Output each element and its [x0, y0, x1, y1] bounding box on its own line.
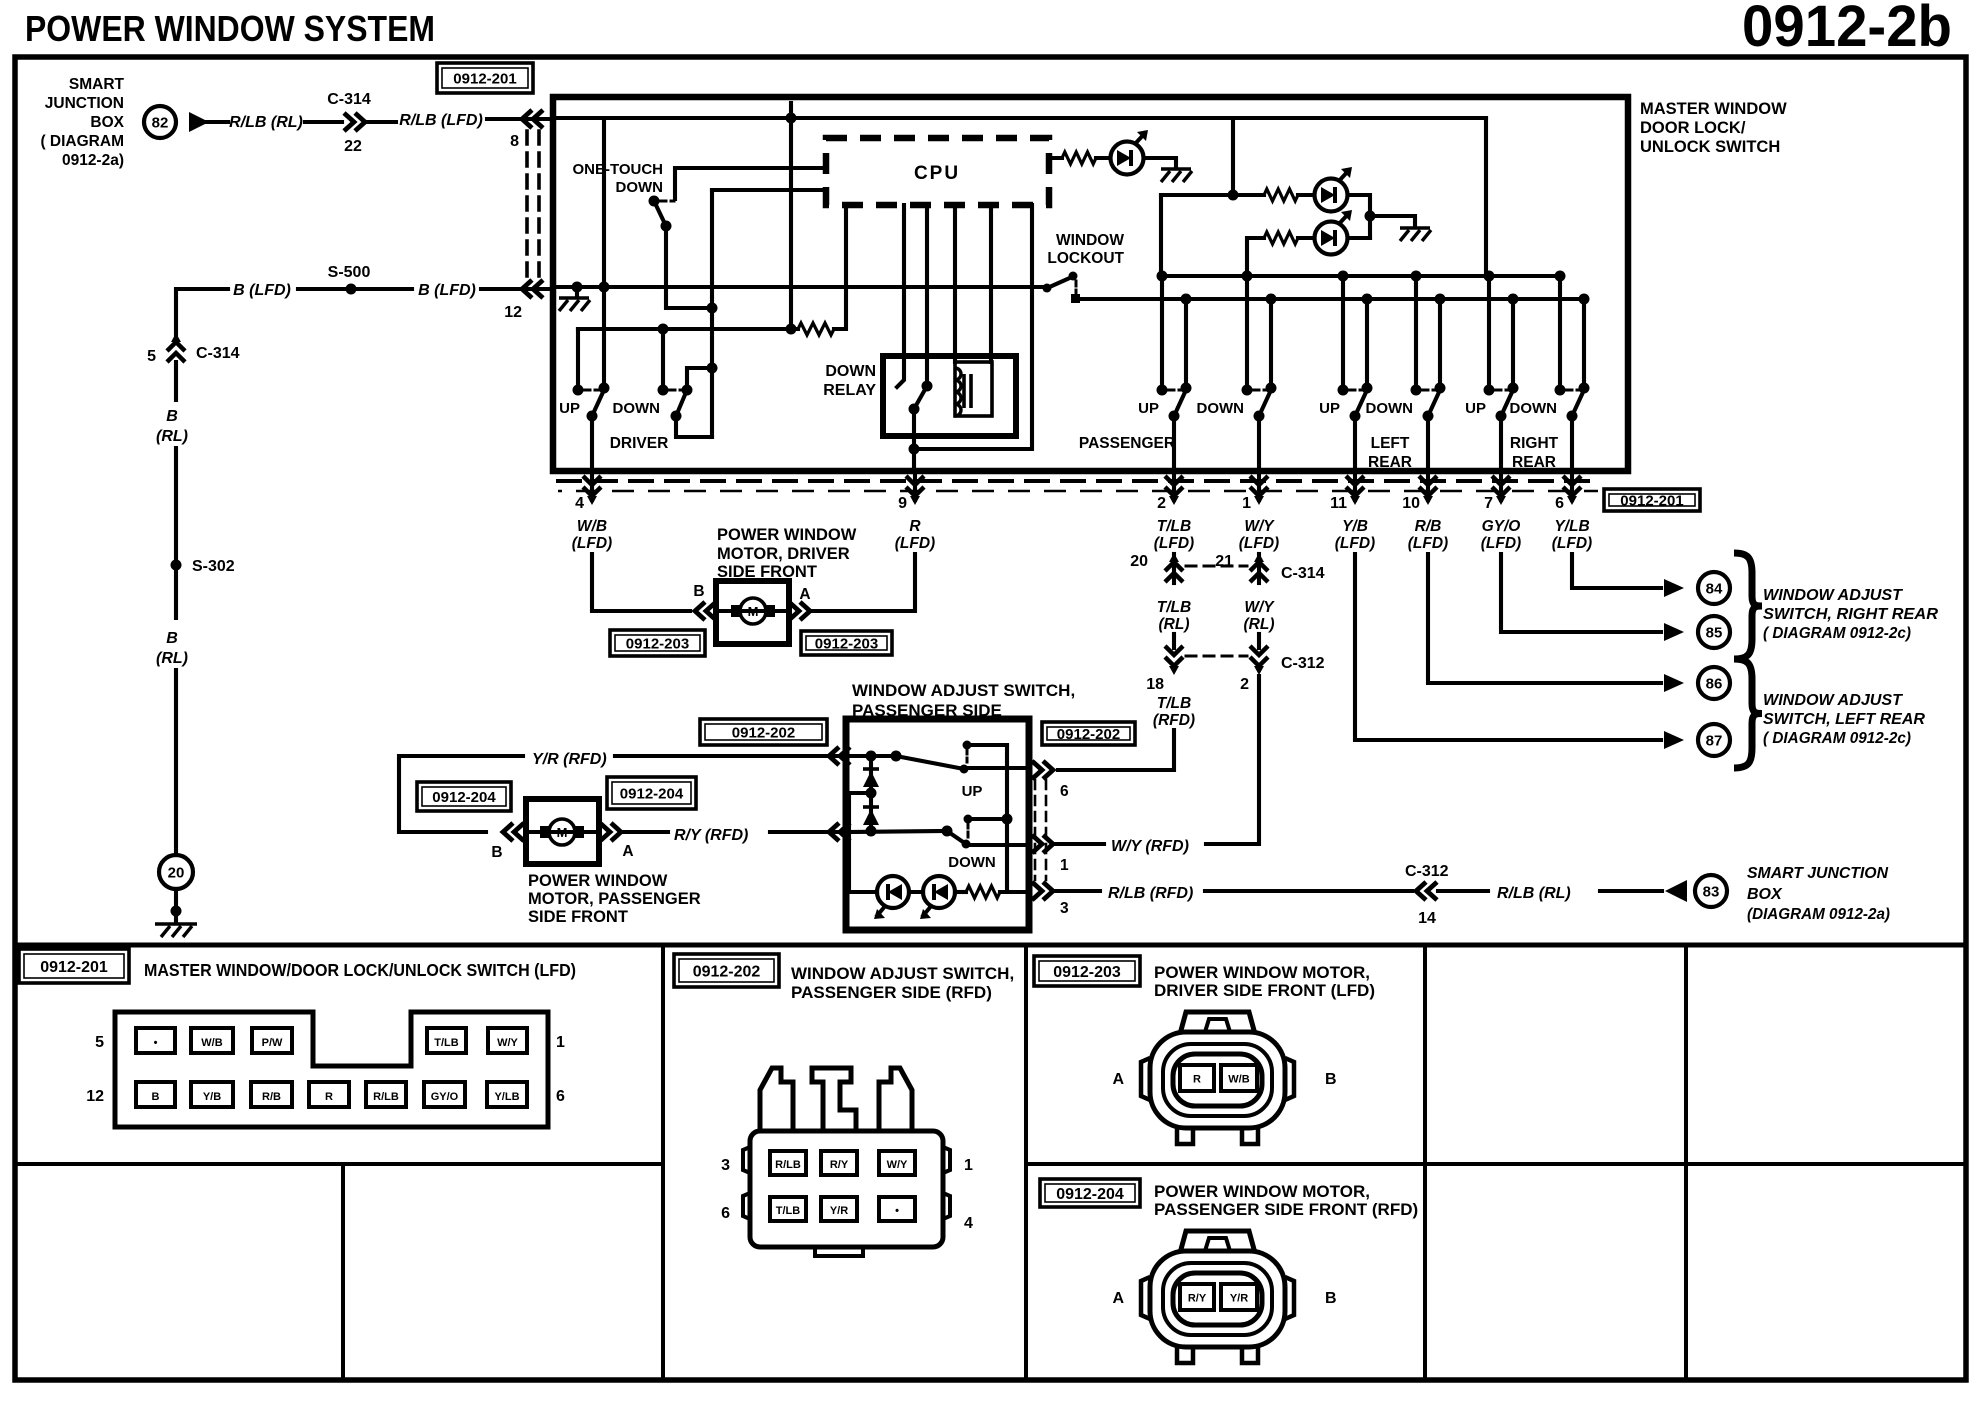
ground symbol G3: [1400, 226, 1430, 230]
pin 7 arrow: [1492, 476, 1510, 496]
svg-text:0912-201: 0912-201: [1620, 492, 1683, 509]
was passenger title: [852, 681, 1075, 720]
connector 0912-204 drawing: [1112, 1231, 1336, 1363]
svg-text:R: R: [325, 1091, 333, 1103]
svg-text:87: 87: [1706, 733, 1723, 750]
junction 1370/216: [1365, 211, 1376, 222]
svg-text:82: 82: [152, 115, 169, 132]
connector C-312 chevrons 14: [1416, 882, 1437, 900]
wire R/Y to was: [770, 830, 842, 834]
wire switch GY/O out: [1499, 416, 1503, 468]
svg-text:W/Y (RFD): W/Y (RFD): [1111, 838, 1189, 855]
svg-text:8: 8: [510, 133, 519, 150]
connector pass-through dashed a: [558, 479, 1598, 483]
svg-text:M: M: [748, 604, 759, 619]
svg-text:DRIVER SIDE FRONT (LFD): DRIVER SIDE FRONT (LFD): [1154, 981, 1375, 1000]
svg-text:UP: UP: [962, 783, 983, 800]
junction bus1 1489: [1484, 271, 1495, 282]
was up contact: [963, 741, 972, 750]
svg-text:WINDOW ADJUST: WINDOW ADJUST: [1763, 692, 1903, 709]
junction bus2 1584: [1579, 294, 1590, 305]
svg-text:SMART JUNCTION: SMART JUNCTION: [1747, 865, 1888, 882]
switch Y/LB lever: [1572, 390, 1584, 416]
svg-text:REAR: REAR: [1512, 454, 1556, 471]
wire R/Y to text: [622, 830, 668, 834]
relay coil winding: [955, 368, 961, 416]
motor B chevrons (passenger): [503, 823, 524, 841]
svg-text:WINDOW: WINDOW: [1056, 232, 1124, 249]
conn202 pin box r1-3 W/Y: [879, 1151, 915, 1175]
wire switch Y/LB lever drop: [1582, 299, 1586, 388]
svg-text:(LFD): (LFD): [1481, 535, 1521, 552]
wire W/Y (RL) down: [1206, 676, 1259, 844]
junction 663/329: [658, 324, 669, 335]
connector 0912-202 bottom tab: [815, 1247, 863, 1256]
svg-text:A: A: [799, 586, 810, 603]
svg-text:MOTOR, DRIVER: MOTOR, DRIVER: [717, 545, 850, 563]
svg-text:T/LB: T/LB: [1157, 695, 1191, 712]
svg-text:MOTOR, PASSENGER: MOTOR, PASSENGER: [528, 890, 701, 908]
switch R/B lever: [1428, 390, 1440, 416]
svg-text:(RFD): (RFD): [1153, 712, 1195, 729]
switch T/LB lever top: [1181, 383, 1192, 394]
wire switch Y/LB contact drop: [1558, 276, 1562, 388]
svg-text:SWITCH, LEFT REAR: SWITCH, LEFT REAR: [1763, 711, 1925, 728]
switch R/B lever top: [1435, 383, 1446, 394]
svg-text:W/B: W/B: [1228, 1074, 1249, 1086]
connector circle 86: [1698, 667, 1730, 699]
lockout lever tip: [1069, 272, 1078, 281]
switch Y/LB lever end: [1567, 411, 1578, 422]
svg-text:T/LB: T/LB: [776, 1205, 800, 1217]
wire driver up out to pin4: [590, 416, 594, 468]
motor M1 (driver side front): [740, 598, 766, 624]
wire Y/R left loop: [399, 756, 523, 832]
wire switch R/B out: [1426, 416, 1430, 468]
wire pin 2 stem: [1172, 472, 1176, 500]
svg-text:0912-203: 0912-203: [815, 635, 878, 652]
arrow from 82: [189, 112, 209, 132]
smart junction box label 2: [1747, 865, 1890, 923]
driver down contact dot: [658, 385, 669, 396]
svg-text:POWER WINDOW MOTOR,: POWER WINDOW MOTOR,: [1154, 963, 1370, 982]
svg-text:Y/R: Y/R: [830, 1205, 848, 1217]
svg-text:2: 2: [1157, 495, 1166, 512]
connector pass-through dashed b: [558, 490, 1598, 493]
svg-text:POWER WINDOW: POWER WINDOW: [717, 526, 857, 544]
was down lever: [947, 831, 966, 844]
pin 10 arrow: [1419, 476, 1437, 496]
svg-text:2: 2: [1240, 676, 1249, 693]
wire switch R/B lever drop: [1438, 299, 1442, 388]
junction was rail: [1002, 814, 1013, 825]
pin 11 arrow: [1346, 476, 1364, 496]
svg-text:(LFD): (LFD): [1408, 535, 1448, 552]
wire pin 7 stem: [1499, 472, 1503, 500]
arrow into 87: [1664, 731, 1684, 749]
table divider v3: [1423, 945, 1427, 1380]
svg-text:6: 6: [1060, 783, 1069, 800]
switch W/Y lever top: [1266, 383, 1277, 394]
wire was down out: [966, 843, 1029, 847]
wire pin21 stem: [1257, 554, 1261, 583]
switch R/B lever end: [1423, 411, 1434, 422]
wire switch GY/O contact drop: [1487, 279, 1491, 388]
svg-text:(RL): (RL): [156, 428, 188, 445]
connector circle 84: [1698, 572, 1730, 604]
driver motor box: [716, 581, 789, 644]
svg-text:B: B: [693, 583, 704, 600]
svg-text:W/Y: W/Y: [1244, 518, 1275, 535]
connector 0912-202 body: [750, 1131, 943, 1247]
switch T/LB lever: [1174, 390, 1186, 416]
junction bus1 1416: [1411, 271, 1422, 282]
lockout contact: [1071, 294, 1080, 303]
svg-text:REAR: REAR: [1368, 454, 1412, 471]
tag 0912-203 cell: [1034, 956, 1140, 986]
svg-text:DOWN: DOWN: [948, 854, 996, 871]
wire pin 1 stem: [1257, 472, 1261, 500]
was entry chevrons R/Y: [829, 823, 850, 841]
svg-text:20: 20: [1130, 553, 1148, 570]
svg-text:(RL): (RL): [1244, 616, 1275, 633]
svg-text:1: 1: [556, 1034, 565, 1051]
wire V1486 to bus1: [1484, 118, 1488, 276]
wire R up: [811, 554, 915, 611]
tag 0912-201 right: [1604, 489, 1700, 511]
wire Y/R from was: [615, 754, 846, 758]
diode D2: [863, 809, 879, 825]
tag 0912-201 cell: [19, 949, 129, 983]
wire driver down out loop: [676, 416, 712, 437]
wire cpu to relay contact: [897, 205, 904, 387]
resistor R-onetouch: [798, 323, 834, 335]
wire resistor to cpu: [834, 205, 846, 329]
connector 0912-203 drawing: [1112, 1012, 1336, 1144]
led L3: [1315, 222, 1348, 255]
tag 0912-203 right: [801, 631, 892, 655]
wire r1 to led1: [1096, 156, 1110, 160]
wire V604 one-touch rail: [602, 118, 606, 388]
switch R/B dashed tick: [1422, 389, 1435, 392]
wire switch W/Y lever drop: [1269, 299, 1273, 388]
wire R/LB (RFD) a: [1056, 889, 1100, 893]
svg-text:Y/R (RFD): Y/R (RFD): [532, 751, 607, 768]
wire Y/LB to 84: [1572, 554, 1661, 588]
wire led2 feed: [1161, 193, 1264, 197]
svg-text:P/W: P/W: [262, 1037, 283, 1049]
svg-text:W/Y: W/Y: [887, 1159, 908, 1171]
junction 791/329: [786, 324, 797, 335]
wire T/LB (RFD) to was: [1058, 730, 1174, 770]
svg-text:UP: UP: [559, 400, 580, 417]
wire switch R/B contact drop: [1414, 276, 1418, 388]
one-touch lever end: [661, 221, 672, 232]
svg-text:DOWN: DOWN: [1197, 400, 1245, 417]
svg-text:PASSENGER: PASSENGER: [1079, 435, 1175, 452]
table row divider right: [1026, 1162, 1966, 1166]
svg-text:0912-203: 0912-203: [626, 635, 689, 652]
wire H0 stub to border: [789, 103, 793, 118]
svg-text:0912-2a): 0912-2a): [62, 152, 124, 169]
svg-text:0912-204: 0912-204: [620, 785, 684, 802]
wire 82 to R/LB (RL): [207, 120, 228, 124]
wire W/Y (RFD) a: [1056, 842, 1104, 846]
junction bus2 1271: [1266, 294, 1277, 305]
conn201 pin box r1-3 P/W: [252, 1028, 292, 1053]
svg-text:UP: UP: [1319, 400, 1340, 417]
svg-text:6: 6: [556, 1088, 565, 1105]
svg-text:CPU: CPU: [914, 163, 960, 184]
tag 0912-204 cell: [1040, 1179, 1140, 1207]
pin 2 arrow: [1165, 476, 1183, 496]
driver up contact dot: [573, 385, 584, 396]
svg-text:83: 83: [1703, 884, 1720, 901]
wire switch Y/B out: [1353, 416, 1357, 468]
svg-text:B: B: [166, 408, 178, 425]
svg-text:18: 18: [1146, 676, 1164, 693]
table divider v5: [341, 1164, 345, 1380]
connector C-312 arrow 2: [1250, 646, 1268, 666]
splice S-500: [346, 284, 357, 295]
switch T/LB contact dot: [1157, 385, 1168, 396]
driver down lever top: [682, 385, 693, 396]
driver up lever top: [599, 383, 610, 394]
svg-text:A: A: [1112, 1290, 1124, 1307]
arrow into 83: [1665, 880, 1687, 902]
svg-text:MASTER WINDOW: MASTER WINDOW: [1640, 100, 1787, 118]
svg-text:0912-201: 0912-201: [40, 959, 108, 976]
svg-text:3: 3: [1060, 900, 1069, 917]
wire led3 out: [1348, 236, 1370, 240]
svg-text:(LFD): (LFD): [1335, 535, 1375, 552]
svg-text:C-314: C-314: [196, 345, 240, 362]
svg-text:S-302: S-302: [192, 558, 235, 575]
svg-text:0912-201: 0912-201: [453, 70, 516, 87]
conn201 pin box r1-2 W/B: [191, 1028, 233, 1053]
svg-text:W/B: W/B: [201, 1037, 222, 1049]
svg-text:1: 1: [964, 1157, 973, 1174]
svg-text:12: 12: [504, 304, 522, 321]
left rear label: [1368, 435, 1412, 471]
was up pivot: [891, 751, 902, 762]
connector C-314 chevrons pin22: [344, 113, 365, 131]
svg-text:(RL): (RL): [156, 650, 188, 667]
svg-text:B (LFD): B (LFD): [233, 282, 291, 299]
smart junction box label: [40, 76, 124, 169]
C-312 dashed link: [1186, 655, 1247, 658]
svg-text:22: 22: [344, 138, 362, 155]
junction H0 stub: [786, 113, 797, 124]
wire 20 to ground: [174, 889, 178, 921]
svg-text:•: •: [895, 1205, 899, 1217]
svg-text:DOWN: DOWN: [825, 363, 876, 380]
tag 0912-202 right: [1042, 722, 1135, 745]
pin 9 arrow: [906, 476, 924, 496]
svg-text:( DIAGRAM 0912-2c): ( DIAGRAM 0912-2c): [1763, 625, 1911, 642]
svg-text:RELAY: RELAY: [823, 382, 876, 399]
wire B(RL) mid: [174, 448, 178, 618]
cell 202 heading: [791, 964, 1014, 1002]
connector 0912-202 side bumps: [743, 1147, 950, 1219]
svg-text:DOWN: DOWN: [616, 179, 664, 196]
wire V712: [710, 190, 714, 437]
motor B chevrons (driver): [695, 602, 716, 620]
resistor R-led2: [1264, 189, 1298, 201]
junction bus1 1560: [1555, 271, 1566, 282]
conn202 pin box r2-1 T/LB: [770, 1197, 806, 1221]
brace left rear: [1734, 659, 1762, 768]
connector 0912-202 tab left: [760, 1068, 793, 1131]
svg-text:DOWN: DOWN: [1510, 400, 1558, 417]
table divider v1: [661, 945, 665, 1380]
lockout dashed tick: [1075, 281, 1078, 293]
svg-text:R/LB (RL): R/LB (RL): [229, 114, 303, 131]
was down pivot: [942, 826, 953, 837]
svg-text:(LFD): (LFD): [572, 535, 612, 552]
resistor R-was: [966, 886, 1000, 898]
wire pin20 stem: [1172, 554, 1176, 583]
wire pin 11 stem: [1353, 472, 1357, 500]
svg-text:WINDOW ADJUST SWITCH,: WINDOW ADJUST SWITCH,: [852, 681, 1075, 700]
wire motor internal (driver): [716, 609, 789, 613]
svg-text:B (LFD): B (LFD): [418, 282, 476, 299]
svg-text:POWER WINDOW MOTOR,: POWER WINDOW MOTOR,: [1154, 1182, 1370, 1201]
svg-text:C-312: C-312: [1405, 863, 1449, 880]
svg-text:0912-202: 0912-202: [1057, 726, 1120, 743]
svg-text:POWER WINDOW: POWER WINDOW: [528, 872, 668, 890]
svg-text:0912-202: 0912-202: [693, 963, 761, 980]
arrow into 86: [1664, 674, 1684, 692]
tag 0912-202 left: [700, 719, 827, 745]
driver down lever end: [671, 411, 682, 422]
svg-text:(RL): (RL): [1159, 616, 1190, 633]
down relay box: [883, 356, 1016, 436]
junction relay out: [909, 444, 920, 455]
was pin 3 chevrons: [1032, 882, 1053, 900]
wire passenger down contact up to led3: [1245, 238, 1249, 276]
svg-text:BOX: BOX: [90, 114, 124, 131]
switch T/LB dashed tick: [1168, 389, 1181, 392]
junction ground tap: [572, 282, 583, 293]
wire led3 feed: [1248, 236, 1264, 240]
svg-text:(LFD): (LFD): [1154, 535, 1194, 552]
tag 0912-202 cell: [674, 954, 779, 987]
passenger motor title: [528, 872, 701, 926]
wire C-314 to R/LB (LFD): [368, 120, 396, 124]
svg-text:M: M: [557, 825, 568, 840]
svg-text:B: B: [166, 630, 178, 647]
svg-text:6: 6: [1555, 495, 1564, 512]
svg-text:R/B: R/B: [262, 1091, 281, 1103]
cpu box (dashed): [826, 138, 1049, 205]
switch GY/O lever: [1501, 390, 1513, 416]
svg-text:0912-204: 0912-204: [1056, 1186, 1124, 1203]
wire cpu to coil b: [989, 205, 993, 362]
wire switch Y/B contact drop: [1341, 276, 1345, 388]
cell 204 heading: [1154, 1182, 1418, 1219]
svg-text:C-314: C-314: [1281, 565, 1325, 582]
wire cpu to coil a: [953, 205, 957, 362]
wire ground bus: [556, 285, 1045, 289]
svg-text:0912-202: 0912-202: [732, 724, 795, 741]
wire R/LB (RL) b: [1600, 889, 1662, 893]
driver up lever: [592, 390, 604, 416]
svg-text:C-314: C-314: [327, 91, 371, 108]
svg-text:R/LB (RFD): R/LB (RFD): [1108, 885, 1193, 902]
wire resistor to was edge: [1000, 890, 1029, 894]
was down lever tip: [962, 840, 971, 849]
switch GY/O lever top: [1508, 383, 1519, 394]
wire pin 10 stem: [1426, 472, 1430, 500]
wire switch W/Y contact drop: [1245, 276, 1249, 388]
junction bus2 1440: [1435, 294, 1446, 305]
switch GY/O contact dot: [1484, 385, 1495, 396]
svg-text:R/Y: R/Y: [1188, 1293, 1207, 1305]
wire relay out: [912, 409, 916, 468]
wire was up out: [964, 766, 1029, 770]
diode D1: [863, 771, 879, 787]
switch W/Y lever: [1259, 390, 1271, 416]
junction bus1 1162: [1157, 271, 1168, 282]
svg-text:3: 3: [721, 1157, 730, 1174]
driver down dashed tick: [669, 389, 683, 392]
switch Y/B lever top: [1362, 383, 1373, 394]
svg-text:1: 1: [1242, 495, 1251, 512]
svg-text:DOOR LOCK/: DOOR LOCK/: [1640, 119, 1746, 137]
lockout pivot: [1043, 284, 1052, 293]
switch W/Y dashed tick: [1253, 389, 1266, 392]
connector 0912-202 tab mid: [812, 1068, 856, 1131]
svg-text:12: 12: [86, 1088, 104, 1105]
wire to C-312 2: [1257, 634, 1261, 648]
wire B(LFD) to pin12: [481, 287, 552, 291]
switch W/Y contact dot: [1242, 385, 1253, 396]
lamp LP2: [923, 876, 955, 908]
svg-text:ONE-TOUCH: ONE-TOUCH: [572, 161, 663, 178]
svg-text:(DIAGRAM 0912-2a): (DIAGRAM 0912-2a): [1747, 906, 1890, 923]
pin 12 entry chevrons: [522, 280, 543, 298]
connector C-314 arrow 21: [1250, 562, 1268, 582]
lockout lever: [1045, 277, 1072, 289]
svg-text:R/B: R/B: [1415, 518, 1442, 535]
was up dashed tick: [966, 749, 969, 762]
resistor R-led3: [1264, 232, 1298, 244]
svg-text:R/LB: R/LB: [373, 1091, 399, 1103]
wire driver down contact: [661, 329, 665, 388]
wire r3 to led3: [1298, 236, 1314, 240]
passenger motor box: [526, 799, 599, 864]
junction diode top: [866, 751, 877, 762]
was pin 6 chevrons: [1032, 761, 1053, 779]
conn201 pin box r2-1 B: [136, 1082, 175, 1107]
svg-text:0912-204: 0912-204: [432, 789, 496, 806]
driver down lever: [676, 390, 687, 416]
wire was contact rail: [1005, 745, 1009, 892]
wire driver up contact: [576, 329, 580, 388]
wire led ground link: [1370, 216, 1415, 226]
ground junction dot: [171, 906, 182, 917]
brace right rear: [1734, 553, 1762, 659]
motor A chevrons (driver): [789, 602, 810, 620]
right rear label: [1510, 435, 1559, 471]
relay lever end: [909, 404, 920, 415]
svg-text:DOWN: DOWN: [1366, 400, 1414, 417]
svg-text:T/LB: T/LB: [434, 1037, 458, 1049]
conn202 pin box r1-1 R/LB: [770, 1151, 806, 1175]
junction diode mid: [866, 788, 877, 799]
svg-text:84: 84: [1706, 581, 1723, 598]
